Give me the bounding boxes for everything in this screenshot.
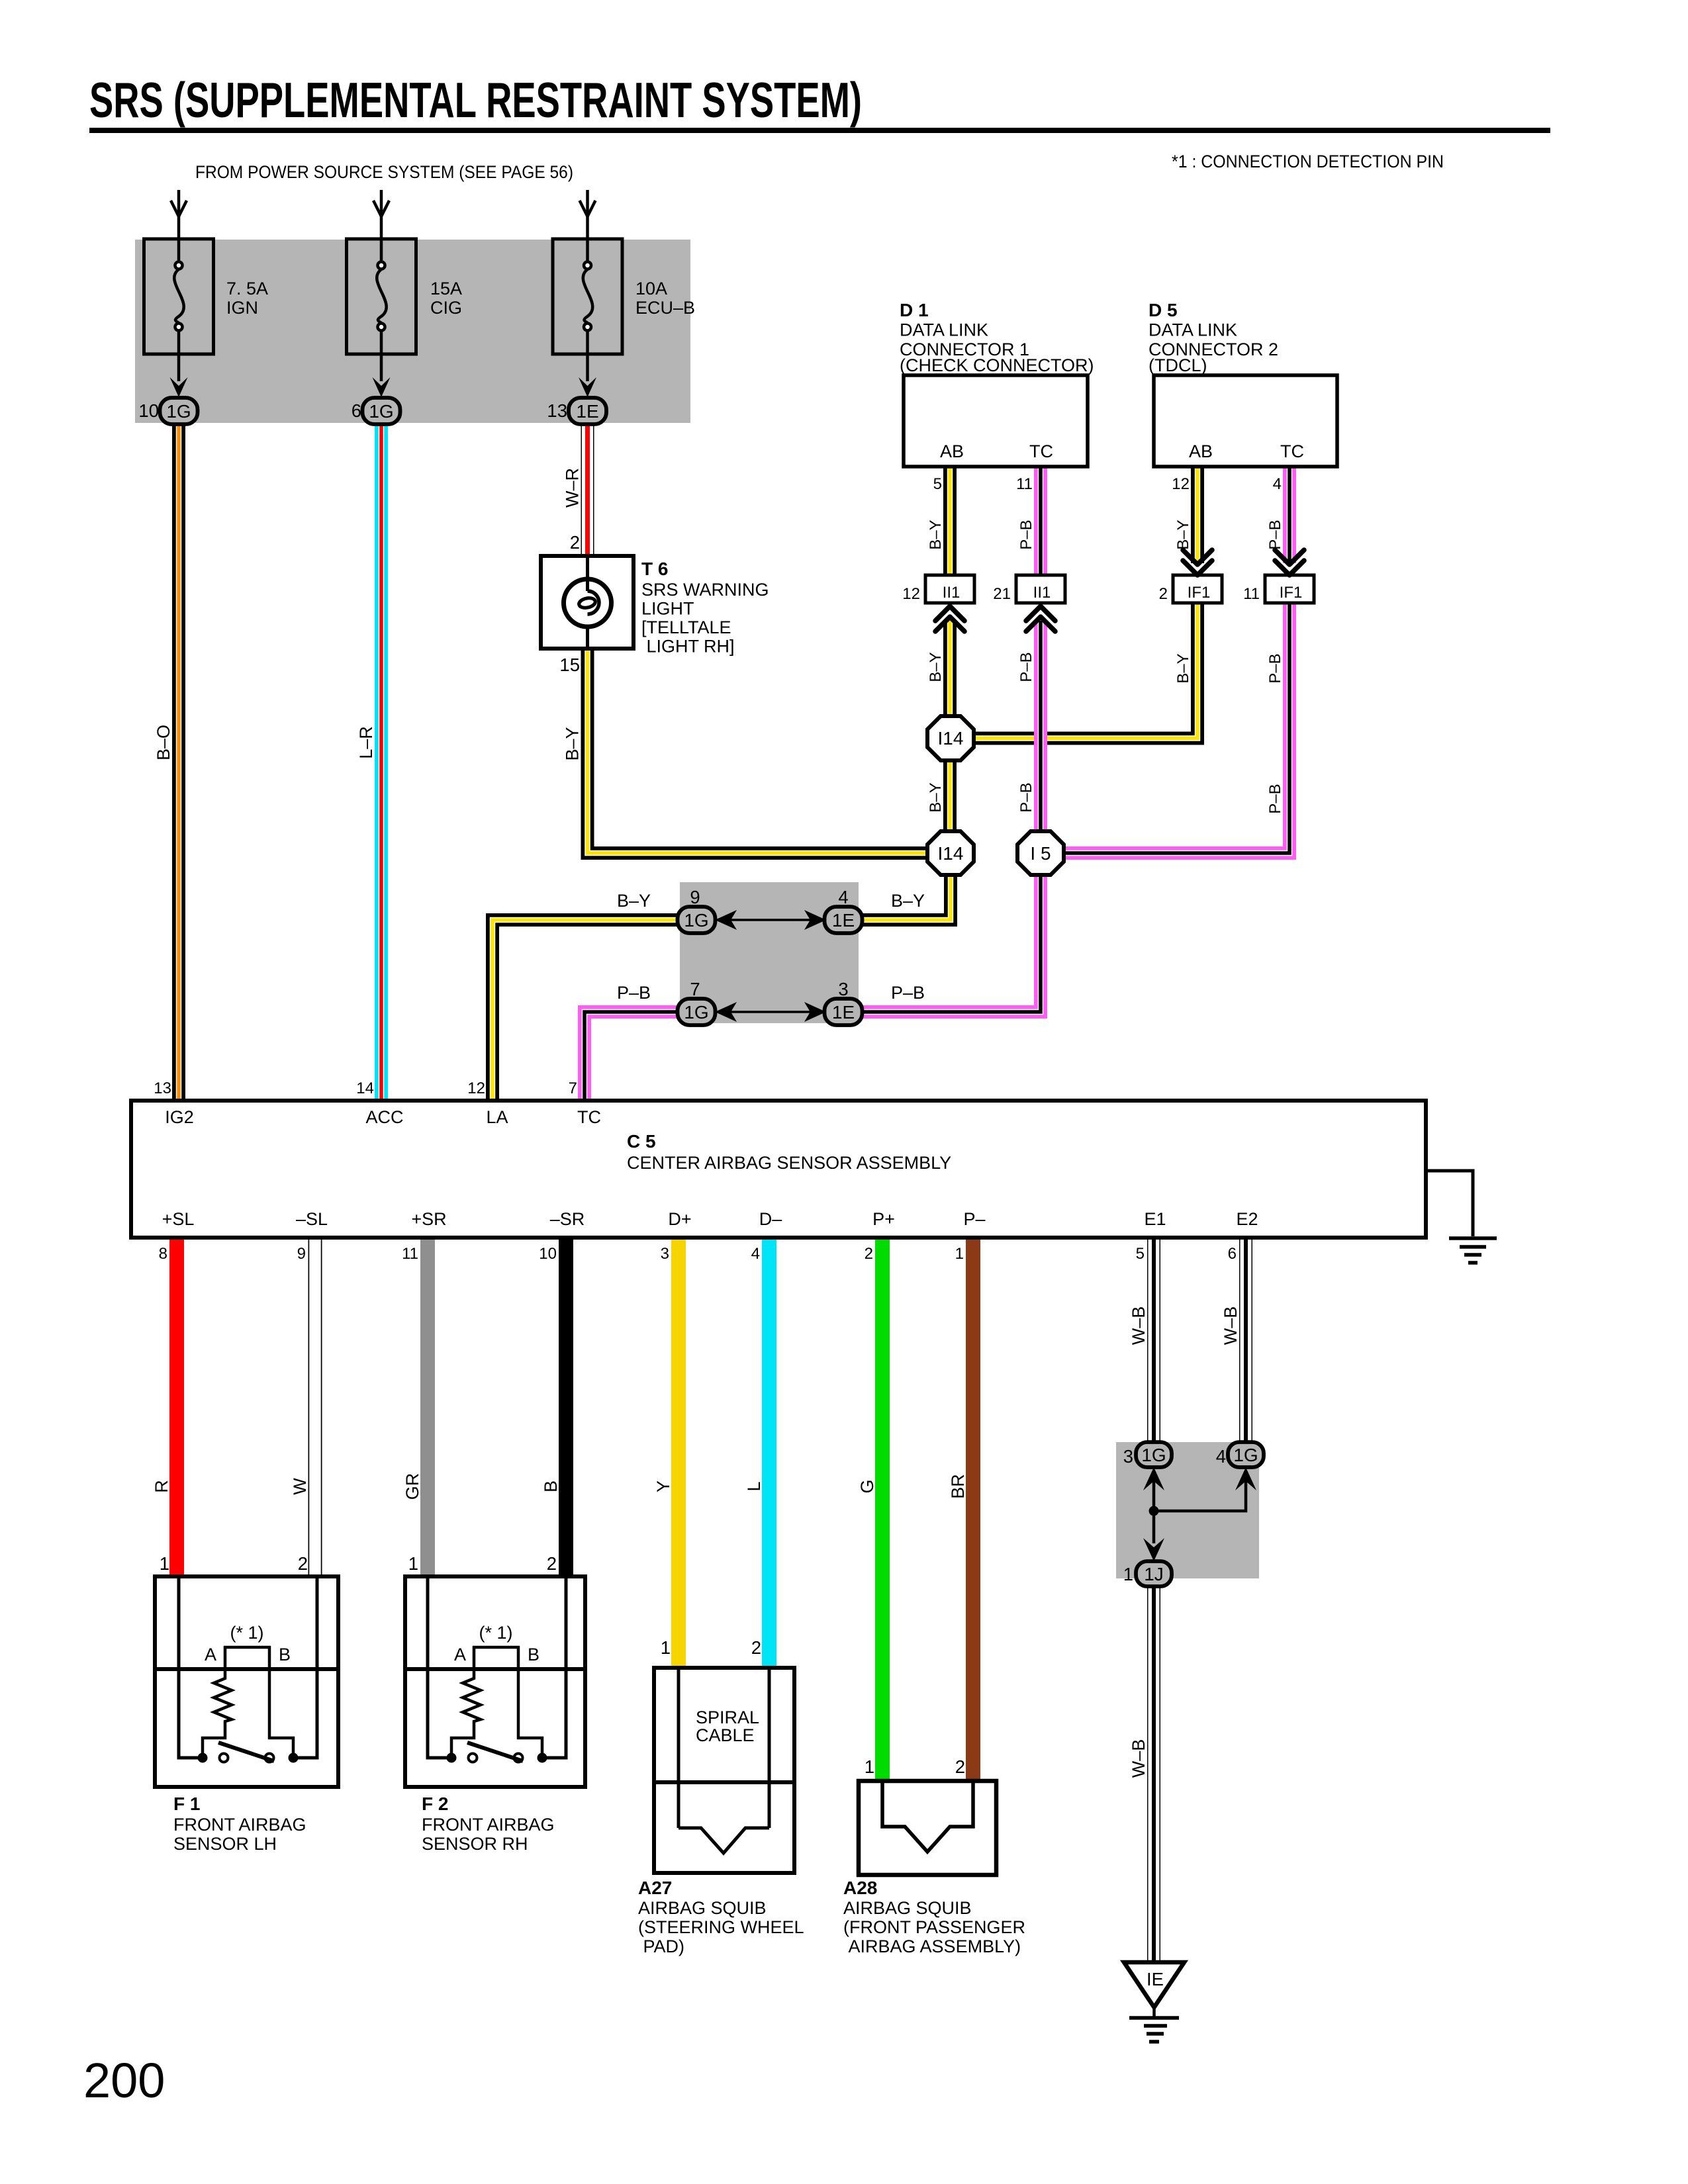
wire R (+SL pin 8 to F1 pin 1) [169,1238,184,1576]
svg-text:4: 4 [1216,1446,1226,1467]
svg-text:12: 12 [467,1079,485,1097]
connector 1E (13) [569,398,606,424]
svg-text:B: B [528,1645,539,1664]
svg-text:D–: D– [759,1209,782,1229]
C5 center airbag sensor assembly box [131,1101,1426,1238]
splice I14 upper [927,716,974,760]
splice I14 lower [927,831,974,875]
wire P-B (IF1 down to I5 right side) [1064,603,1289,853]
svg-text:14: 14 [356,1079,374,1097]
svg-text:I14: I14 [938,843,964,864]
connector 1G (6) [363,398,400,424]
svg-text:10A: 10A [635,279,667,298]
wire B-Y (D5 AB pin 12 to IF1) [1191,467,1204,563]
wire B-Y (D1 AB pin 5 to II1) [943,467,957,575]
svg-text:B–Y: B–Y [927,782,945,812]
svg-text:–SL: –SL [296,1209,328,1229]
A27 spiral cable box [654,1668,794,1873]
wire W-B (1J to ground IE) [1147,1585,1160,1962]
svg-text:2: 2 [1159,585,1168,603]
svg-text:1G: 1G [1141,1445,1166,1465]
wire B-Y (I14 to I14) [943,760,957,831]
svg-text:1E: 1E [832,910,855,931]
T6 SRS warning light [541,556,633,649]
svg-text:1: 1 [955,1245,964,1263]
wire B-Y (junction 1E pin 4 to I14) [861,875,951,920]
svg-text:L–R: L–R [356,726,376,759]
svg-text:SRS WARNING: SRS WARNING [641,580,769,600]
svg-text:LA: LA [486,1107,508,1127]
wire P-B (D1 TC pin 11 to II1) [1034,467,1047,575]
svg-text:8: 8 [159,1245,167,1263]
svg-text:1: 1 [865,1756,874,1777]
wire B (-SR pin 10 to F2 pin 2) [559,1238,573,1576]
svg-text:10: 10 [539,1245,557,1263]
svg-text:GR: GR [402,1473,422,1500]
fuse 7.5A IGN feed wire [171,190,187,239]
svg-text:P–B: P–B [1017,782,1035,812]
wire L (D- pin 4 to spiral cable pin 2) [762,1238,776,1668]
svg-text:W: W [290,1478,310,1495]
svg-text:SRS (SUPPLEMENTAL RESTRAINT SY: SRS (SUPPLEMENTAL RESTRAINT SYSTEM) [89,72,862,128]
connector IF1 (2) [1173,575,1222,603]
svg-text:DATA LINK: DATA LINK [1149,320,1237,340]
svg-text:P+: P+ [872,1209,895,1229]
svg-text:1G: 1G [166,401,191,422]
connector 1G (4) [1228,1442,1264,1467]
svg-text:AIRBAG ASSEMBLY): AIRBAG ASSEMBLY) [843,1936,1021,1956]
svg-text:15: 15 [559,655,580,675]
svg-text:SENSOR RH: SENSOR RH [422,1834,528,1854]
svg-text:(FRONT PASSENGER: (FRONT PASSENGER [843,1917,1025,1937]
svg-text:10: 10 [138,400,159,421]
svg-text:ECU–B: ECU–B [635,298,695,318]
wire BR (P- pin 1 to A28 pin 2) [966,1238,980,1781]
svg-text:PAD): PAD) [638,1936,684,1956]
svg-text:P–B: P–B [617,983,651,1003]
svg-text:FRONT AIRBAG: FRONT AIRBAG [173,1815,306,1835]
svg-text:W–R: W–R [563,468,583,508]
svg-text:LIGHT: LIGHT [641,599,694,619]
svg-text:P–B: P–B [1266,784,1284,813]
svg-text:TC: TC [1029,441,1053,461]
svg-text:DATA LINK: DATA LINK [900,320,988,340]
svg-text:11: 11 [1016,475,1033,493]
svg-text:AB: AB [1189,441,1213,461]
wire GR (+SR pin 11 to F2 pin 1) [420,1238,435,1576]
wire P-B (D5 TC pin 4 to IF1) [1283,467,1296,563]
junction connector 1E (4) [825,907,863,933]
svg-text:–SR: –SR [550,1209,585,1229]
chevrons below II1 (21) [1026,606,1055,631]
arrow into 1G [373,377,391,397]
svg-text:IGN: IGN [226,298,258,318]
connector II1 (12) [925,575,974,603]
svg-text:D+: D+ [668,1209,691,1229]
fuse 10A ECU-B [553,239,622,381]
svg-text:P–B: P–B [1017,520,1035,549]
wire W-B (E2 pin 6 to 1G) [1239,1238,1252,1443]
svg-text:SENSOR LH: SENSOR LH [173,1834,277,1854]
svg-text:3: 3 [838,979,848,999]
svg-text:BR: BR [948,1474,968,1499]
svg-text:D 5: D 5 [1149,300,1178,320]
svg-text:11: 11 [1243,585,1260,603]
wire W-B (E1 pin 5 to 1G) [1147,1238,1160,1443]
C5 ground branch [1428,1171,1497,1263]
junction dot [1149,1506,1159,1516]
svg-text:2: 2 [865,1245,873,1263]
svg-text:12: 12 [902,585,920,603]
svg-text:200: 200 [83,2053,165,2108]
arrow up into 1G (4) [1235,1467,1256,1490]
svg-text:IF1: IF1 [1188,584,1211,602]
junction block gray box (E1/E2) [1116,1442,1259,1578]
svg-text:C 5: C 5 [627,1131,656,1152]
svg-text:*1 : CONNECTION DETECTION PIN: *1 : CONNECTION DETECTION PIN [1172,152,1444,171]
svg-text:7: 7 [690,979,700,999]
ground IE bars [1129,2007,1179,2042]
svg-text:T 6: T 6 [641,559,668,579]
svg-text:P–B: P–B [1017,652,1035,682]
svg-text:B–Y: B–Y [617,891,651,911]
svg-text:CABLE: CABLE [696,1725,755,1745]
svg-text:1E: 1E [832,1002,855,1023]
svg-text:I 5: I 5 [1030,843,1051,864]
svg-text:AIRBAG SQUIB: AIRBAG SQUIB [638,1898,767,1918]
F2 front airbag sensor RH [405,1576,585,1787]
svg-text:P–: P– [963,1209,985,1229]
svg-text:G: G [857,1479,877,1493]
splice I5 [1017,831,1064,875]
svg-text:LIGHT RH]: LIGHT RH] [641,637,735,657]
svg-text:5: 5 [1136,1245,1145,1263]
svg-text:4: 4 [1273,475,1282,493]
svg-text:6: 6 [352,400,361,421]
A28 airbag squib box [859,1781,996,1875]
wire L-R ACC (fuse CIG to C5 pin 14) [375,424,388,1101]
svg-text:ACC: ACC [365,1107,403,1127]
svg-text:7. 5A: 7. 5A [226,279,268,298]
arrow up into 1G (3) [1143,1467,1164,1490]
svg-text:11: 11 [402,1245,418,1263]
svg-text:3: 3 [1123,1446,1133,1467]
svg-text:A: A [454,1645,466,1664]
wire W (-SL pin 9 to F1 pin 2) [308,1238,322,1576]
svg-text:(* 1): (* 1) [230,1623,263,1643]
svg-text:B–Y: B–Y [1174,520,1192,549]
svg-text:4: 4 [838,887,848,907]
junction connector 1G (9) [678,907,716,933]
wire Y (D+ pin 3 to spiral cable pin 1) [671,1238,686,1668]
svg-text:TC: TC [1280,441,1304,461]
wire B-Y (junction 1G pin 9 to C5 LA pin 12) [492,920,679,1101]
chevrons above IF1 (2) [1183,550,1212,575]
svg-text:6: 6 [1228,1245,1237,1263]
wire P-B (I5 to junction 1E pin 3) [861,875,1041,1012]
svg-text:1: 1 [1123,1564,1133,1584]
svg-text:A: A [205,1645,216,1664]
svg-text:W–B: W–B [1221,1306,1241,1345]
svg-text:2: 2 [298,1553,308,1574]
fuse 15A CIG [347,239,416,381]
svg-text:A27: A27 [638,1878,672,1898]
svg-text:[TELLTALE: [TELLTALE [641,617,731,637]
fuse 15A CIG feed wire [373,190,389,239]
svg-text:Y: Y [653,1480,673,1492]
arrow into 1G [170,377,188,397]
svg-text:B–Y: B–Y [563,727,583,760]
svg-text:5: 5 [933,475,942,493]
svg-text:B–Y: B–Y [927,520,945,549]
svg-text:F 1: F 1 [173,1794,200,1814]
svg-text:(STEERING WHEEL: (STEERING WHEEL [638,1917,804,1937]
svg-text:A28: A28 [843,1878,877,1898]
svg-text:4: 4 [751,1245,760,1263]
svg-text:1E: 1E [576,401,598,422]
svg-text:CENTER AIRBAG SENSOR ASSEMBLY: CENTER AIRBAG SENSOR ASSEMBLY [627,1153,951,1173]
ground IE triangle [1124,1962,1184,2007]
svg-text:R: R [152,1480,171,1493]
svg-text:AIRBAG SQUIB: AIRBAG SQUIB [843,1898,972,1918]
connector 1G (10) [160,398,198,424]
svg-text:FRONT AIRBAG: FRONT AIRBAG [422,1815,555,1835]
svg-text:E2: E2 [1236,1209,1258,1229]
svg-text:9: 9 [690,887,700,907]
D1 data link connector 1 box [904,375,1088,467]
wire G (P+ pin 2 to A28 pin 1) [875,1238,890,1781]
svg-text:13: 13 [547,400,567,421]
svg-text:1G: 1G [369,401,393,422]
svg-text:(CHECK CONNECTOR): (CHECK CONNECTOR) [900,355,1094,375]
svg-text:B: B [279,1645,291,1664]
svg-text:L: L [744,1481,764,1491]
svg-text:2: 2 [955,1756,965,1777]
svg-text:E1: E1 [1144,1209,1166,1229]
svg-text:1: 1 [408,1553,418,1574]
svg-text:AB: AB [940,441,964,461]
svg-text:1G: 1G [684,910,708,931]
svg-text:F 2: F 2 [422,1794,448,1814]
svg-text:B–O: B–O [154,725,173,760]
arrow into 1E [579,377,596,397]
junction connector 1G (7) [678,999,716,1025]
chevrons below II1 (12) [935,606,964,631]
D5 data link connector 2 box [1154,375,1337,467]
svg-text:7: 7 [569,1079,577,1097]
wire P-B (II1 down to I5) [1034,621,1047,831]
svg-text:W–B: W–B [1129,1739,1149,1778]
connector II1 (21) [1016,575,1065,603]
svg-text:(* 1): (* 1) [479,1623,512,1643]
chevrons above IF1 (11) [1275,550,1304,575]
svg-text:2: 2 [570,532,580,553]
svg-text:SPIRAL: SPIRAL [696,1707,759,1727]
title rule [89,128,1550,133]
svg-text:1G: 1G [1233,1445,1258,1465]
fuse 7.5A IGN [144,239,214,381]
svg-text:3: 3 [661,1245,669,1263]
svg-text:I14: I14 [938,728,964,749]
junction wiring W-B inside block [1154,1481,1246,1543]
F1 front airbag sensor LH [155,1576,338,1787]
svg-text:IE: IE [1147,1969,1164,1989]
svg-text:IG2: IG2 [165,1107,194,1127]
svg-text:1G: 1G [684,1002,708,1023]
svg-text:II1: II1 [1033,584,1051,602]
E1/E2 junction: connector 1G (3) [1136,1442,1172,1467]
fuse 10A ECU-B feed wire [580,190,596,239]
svg-text:D 1: D 1 [900,300,929,320]
svg-text:P–B: P–B [1266,520,1284,549]
svg-text:IF1: IF1 [1280,584,1303,602]
junction block gray box (middle) [680,882,859,1023]
wire B-Y (T6 pin 15 to I14) [588,649,929,853]
svg-text:(TDCL): (TDCL) [1149,355,1207,375]
svg-text:W–B: W–B [1129,1306,1149,1345]
svg-text:1J: 1J [1144,1564,1164,1584]
svg-text:FROM POWER SOURCE SYSTEM (SEE: FROM POWER SOURCE SYSTEM (SEE PAGE 56) [195,162,573,182]
junction block gray band (power source) [135,240,690,423]
connector IF1 (11) [1265,575,1314,603]
svg-text:15A: 15A [430,279,462,298]
svg-text:II1: II1 [943,584,961,602]
svg-text:B–Y: B–Y [927,652,945,682]
wire B-O IG2 (fuse IGN to C5 pin 13) [172,424,185,1101]
svg-text:P–B: P–B [1266,653,1284,683]
svg-text:1: 1 [160,1553,169,1574]
wire W-R (fuse ECU-B to T6 pin 2) [581,424,594,556]
junction connector 1E (3) [825,999,863,1025]
svg-text:2: 2 [751,1637,761,1658]
arrow down into 1J [1143,1538,1164,1561]
svg-text:P–B: P–B [891,983,925,1003]
in-harness arrows row 1 [715,910,826,930]
connector 1J (1) [1136,1561,1172,1586]
svg-text:B–Y: B–Y [891,891,925,911]
svg-text:9: 9 [297,1245,306,1263]
svg-text:TC: TC [577,1107,601,1127]
svg-text:13: 13 [154,1079,171,1097]
svg-text:12: 12 [1172,475,1190,493]
svg-text:1: 1 [661,1637,671,1658]
svg-text:21: 21 [993,585,1011,603]
svg-text:2: 2 [547,1553,557,1574]
svg-text:CIG: CIG [430,298,462,318]
in-harness arrows row 2 [715,1002,826,1022]
svg-text:+SL: +SL [162,1209,195,1229]
wire B-Y (IF1 down to I14 right side) [974,603,1197,739]
svg-text:B: B [541,1480,561,1492]
wire B-Y (II1 to I14) [943,621,957,716]
wire P-B (junction 1G pin 7 to C5 TC pin 7) [585,1012,679,1101]
svg-text:B–Y: B–Y [1174,653,1192,683]
svg-text:+SR: +SR [411,1209,446,1229]
